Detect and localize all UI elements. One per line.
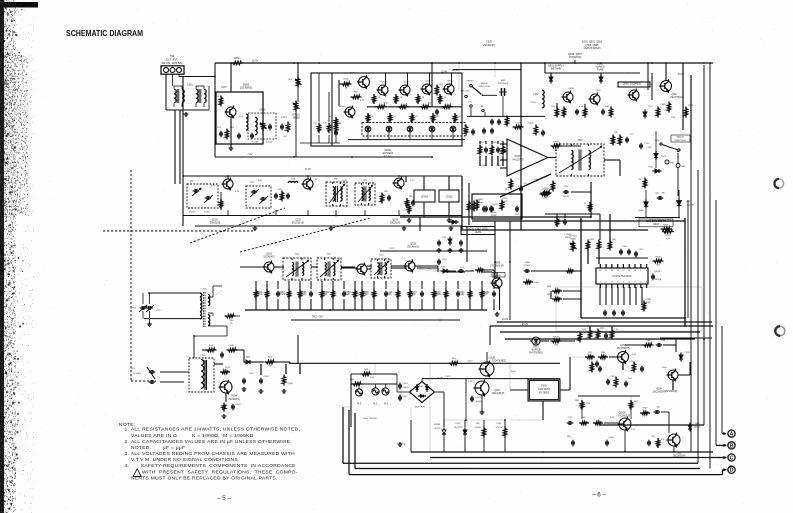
svg-text:2SC2603 (P): 2SC2603 (P) [490, 265, 504, 268]
svg-text:Q506: Q506 [568, 88, 574, 90]
svg-text:CF501: CF501 [421, 197, 429, 199]
svg-text:VC503: VC503 [252, 142, 259, 144]
svg-text:R(3)06: R(3)06 [553, 336, 560, 338]
svg-text:WITH PRESENT SAFETY REGULAT: WITH PRESENT SAFETY REGULATIONS, THESE C… [142, 469, 298, 475]
svg-text:FM: FM [469, 102, 472, 104]
svg-text:D(3): D(3) [246, 357, 250, 359]
svg-text:HA1137(3): HA1137(3) [513, 158, 524, 161]
svg-text:Q101: Q101 [212, 220, 218, 222]
svg-text:13.2V: 13.2V [502, 318, 509, 321]
svg-text:2SC(3)(S): 2SC(3)(S) [390, 223, 401, 225]
svg-text:R(3)9: R(3)9 [287, 383, 293, 385]
svg-text:T01: T01 [170, 54, 175, 58]
svg-text:27/50V: 27/50V [524, 265, 531, 267]
svg-text:7.6K: 7.6K [329, 127, 334, 129]
svg-text:R40: R40 [628, 378, 632, 380]
svg-text:SW5: SW5 [501, 80, 506, 82]
svg-text:0.4V: 0.4V [343, 180, 348, 182]
svg-text:4.7K: 4.7K [666, 238, 671, 240]
svg-text:D502: D502 [661, 156, 666, 158]
svg-text:Q003: Q003 [494, 390, 500, 392]
svg-text:C219: C219 [515, 122, 521, 124]
svg-text:1K: 1K [324, 294, 327, 296]
svg-text:C207: C207 [497, 165, 503, 167]
svg-text:Q308: Q308 [656, 389, 662, 391]
svg-text:PIN SW(3): PIN SW(3) [498, 83, 509, 85]
svg-text:270K: 270K [586, 403, 591, 405]
svg-text:H(3): H(3) [567, 436, 571, 438]
svg-text:100/6V: 100/6V [563, 196, 570, 198]
svg-text:C317: C317 [639, 249, 645, 251]
svg-text:39(B): 39(B) [645, 302, 650, 304]
svg-text:2SD(3)66(P): 2SD(3)66(P) [492, 393, 505, 395]
svg-text:Q201: Q201 [266, 254, 272, 256]
svg-text:C513: C513 [648, 106, 654, 108]
svg-text:2.4V: 2.4V [631, 429, 636, 431]
svg-text:C(3)24: C(3)24 [654, 271, 661, 273]
svg-text:47K: 47K [504, 201, 508, 203]
svg-text:PHONO: PHONO [467, 81, 474, 83]
svg-text:5303: 5303 [676, 452, 682, 454]
svg-text:C102: C102 [295, 220, 301, 222]
svg-text:2C10 C017 D030: 2C10 C017 D030 [468, 229, 488, 231]
svg-text:HF505: HF505 [339, 106, 346, 108]
svg-text:13.2V: 13.2V [252, 59, 259, 63]
svg-text:– 6 –: – 6 – [592, 492, 606, 499]
svg-text:4.2V: 4.2V [610, 417, 615, 419]
svg-text:7.2V: 7.2V [247, 153, 252, 156]
svg-text:2SC945(P): 2SC945(P) [483, 44, 495, 47]
svg-text:2. ALL CAPACITANCES VALUES ARE: 2. ALL CAPACITANCES VALUES ARE IN μF UNL… [125, 439, 291, 445]
svg-text:2SC458(S): 2SC458(S) [240, 86, 253, 90]
svg-text:C509: C509 [530, 102, 536, 104]
svg-text:R(3): R(3) [634, 401, 638, 403]
svg-text:R68: R68 [439, 84, 443, 86]
svg-text:R(3): R(3) [582, 417, 586, 419]
svg-text:0.6V: 0.6V [632, 354, 637, 356]
svg-text:R(3): R(3) [452, 358, 456, 360]
svg-text:R09: R09 [288, 79, 292, 81]
svg-text:DETUNE: DETUNE [551, 68, 561, 71]
svg-text:AUTO SW: AUTO SW [461, 90, 470, 93]
svg-text:C303: C303 [685, 352, 691, 354]
svg-text:Q551: Q551 [224, 177, 230, 179]
svg-text:R6: R6 [339, 123, 341, 125]
svg-text:R95: R95 [384, 191, 388, 193]
svg-text:39(B): 39(B) [570, 239, 576, 241]
svg-text:2.2K: 2.2K [370, 377, 375, 379]
svg-text:C203: C203 [492, 142, 498, 144]
svg-text:SW500: SW500 [480, 83, 488, 85]
svg-text:13.2V: 13.2V [445, 376, 451, 378]
svg-text:470/16V: 470/16V [403, 387, 411, 389]
svg-text:A: A [730, 432, 734, 438]
svg-text:BUF61B: BUF61B [532, 350, 541, 352]
svg-text:C10: C10 [323, 122, 326, 124]
svg-text:2SA678(S)(GR): 2SA678(S)(GR) [584, 47, 601, 50]
svg-text:R529: R529 [553, 141, 559, 143]
svg-text:D: D [730, 468, 734, 474]
svg-text:2.2K: 2.2K [301, 294, 306, 296]
svg-text:V.T.V.M. UNDER NO SIGNAL CONDI: V.T.V.M. UNDER NO SIGNAL CONDITIONS. [131, 457, 240, 463]
svg-text:0.4V: 0.4V [518, 186, 523, 188]
svg-text:C108: C108 [493, 204, 499, 206]
svg-text:2SD476(NE2): 2SD476(NE2) [492, 361, 506, 363]
svg-text:FM STEREO: FM STEREO [529, 353, 543, 355]
svg-text:4.4V: 4.4V [211, 185, 216, 187]
svg-text:D004: D004 [653, 224, 659, 226]
svg-text:R280: R280 [544, 188, 550, 190]
svg-text:Q513: Q513 [447, 81, 453, 83]
svg-text:R(3): R(3) [476, 423, 480, 425]
svg-text:SP001: SP001 [385, 150, 393, 152]
svg-text:T202: T202 [327, 254, 333, 256]
svg-text:Q510: Q510 [671, 94, 677, 96]
svg-text:2SK(3)(S): 2SK(3)(S) [210, 223, 221, 225]
svg-text:FILTERS: FILTERS [539, 392, 549, 395]
svg-text:V/T302: V/T302 [645, 299, 652, 301]
svg-text:1. ALL RESISTANCES ARE 1/4WATT: 1. ALL RESISTANCES ARE 1/4WATTS, UNLESS … [125, 427, 301, 433]
svg-text:C112: C112 [278, 189, 283, 191]
svg-text:L507: L507 [533, 94, 539, 96]
svg-text:TA24V5: TA24V5 [694, 425, 701, 428]
svg-text:SIGNAL: SIGNAL [384, 155, 393, 158]
svg-text:C(3)05: C(3)05 [608, 437, 614, 439]
svg-text:3. ALL VOLTAGES REDING FROM CH: 3. ALL VOLTAGES REDING FROM CHASSIS ARE … [125, 451, 296, 457]
svg-text:10K: 10K [612, 239, 616, 241]
svg-text:2SC2603(P): 2SC2603(P) [665, 391, 678, 393]
svg-text:FUNCTION: FUNCTION [674, 140, 686, 142]
svg-text:DA7(3): DA7(3) [655, 278, 662, 281]
svg-text:R306: R306 [664, 224, 670, 226]
svg-text:1(3): 1(3) [554, 344, 558, 346]
svg-text:RD-6223: RD-6223 [454, 427, 461, 429]
svg-text:R(3)4: R(3)4 [231, 396, 238, 398]
svg-text:VALUES ARE IN Ω. K = 10: VALUES ARE IN Ω. K = 1000Ω, M = 1000KΩ [131, 433, 254, 439]
svg-text:FM50: FM50 [655, 140, 660, 142]
svg-text:C(3)07: C(3)07 [263, 376, 269, 378]
svg-text:(3)0(2)V: (3)0(2)V [475, 427, 483, 429]
svg-text:2SC2603(P): 2SC2603(P) [617, 348, 630, 350]
svg-text:B: B [730, 443, 734, 449]
svg-text:D001: D001 [419, 386, 423, 388]
svg-text:2SC460(S): 2SC460(S) [263, 257, 275, 259]
svg-text:FUNCTION: FUNCTION [478, 86, 490, 88]
svg-text:D(3)7: D(3)7 [456, 423, 461, 425]
svg-text:– 5 –: – 5 – [217, 495, 231, 502]
svg-text:C(3)1: C(3)1 [442, 259, 447, 261]
svg-text:13.4V: 13.4V [441, 71, 448, 74]
svg-text:2SC2603(P): 2SC2603(P) [618, 416, 631, 418]
svg-text:MOD 8.2K: MOD 8.2K [415, 407, 426, 409]
svg-text:Q203: Q203 [410, 244, 416, 246]
svg-text:560-1W: 560-1W [496, 427, 503, 429]
svg-text:C69: C69 [439, 108, 443, 110]
svg-text:10K: 10K [479, 202, 483, 204]
svg-text:C005: C005 [403, 396, 408, 398]
svg-text:R221: R221 [529, 123, 535, 125]
svg-text:TR(3): TR(3) [565, 237, 571, 239]
svg-text:8.2K: 8.2K [459, 294, 464, 296]
svg-text:0.047: 0.047 [363, 294, 369, 296]
svg-text:4.7K: 4.7K [579, 106, 584, 108]
svg-text:CF502: CF502 [446, 197, 454, 199]
svg-text:R(3): R(3) [547, 286, 551, 288]
svg-text:T240: T240 [229, 320, 233, 322]
svg-text:TC01: TC01 [156, 310, 161, 312]
svg-text:D001: D001 [533, 347, 539, 349]
svg-text:TUNE: TUNE [597, 69, 604, 72]
svg-text:Q103: Q103 [392, 220, 398, 222]
svg-text:Q507: Q507 [595, 90, 601, 92]
svg-text:R(3)7: R(3)7 [643, 408, 648, 410]
svg-text:VC01: VC01 [131, 308, 137, 310]
svg-text:R515: R515 [384, 102, 389, 104]
svg-text:D(3)B0: D(3)B0 [434, 424, 440, 426]
svg-text:V(3): V(3) [131, 368, 135, 370]
svg-text:L205: L205 [201, 355, 207, 357]
svg-text:TC503: TC503 [266, 142, 273, 144]
svg-text:SCHEMATIC DIAGRAM: SCHEMATIC DIAGRAM [66, 28, 143, 38]
svg-text:C(3): C(3) [655, 193, 659, 195]
svg-text:C(3)12: C(3)12 [235, 404, 241, 406]
svg-text:2SC945(S): 2SC945(S) [228, 399, 240, 401]
svg-text:14.3V: 14.3V [510, 371, 516, 373]
svg-text:C515: C515 [645, 143, 651, 145]
svg-text:D001 S1VS20: D001 S1VS20 [363, 418, 377, 420]
svg-text:C(3): C(3) [568, 417, 572, 419]
svg-text:47/16V: 47/16V [278, 294, 286, 296]
svg-text:C(3): C(3) [651, 436, 655, 438]
svg-text:C39: C39 [610, 376, 614, 378]
svg-text:ELPRESS: ELPRESS [383, 153, 394, 155]
svg-text:2SA778(GR): 2SA778(GR) [670, 96, 684, 99]
svg-text:R205: R205 [482, 165, 488, 167]
svg-text:4.7K: 4.7K [360, 100, 365, 102]
svg-text:Q511: Q511 [425, 81, 431, 83]
svg-text:1.2K: 1.2K [671, 117, 676, 119]
svg-text:NENTS MUST ONLY BE REPLACED BY: NENTS MUST ONLY BE REPLACED BY ORIGINAL … [131, 475, 278, 481]
svg-text:13.2V: 13.2V [389, 248, 395, 250]
svg-text:C(3)03: C(3)03 [475, 397, 481, 399]
svg-text:C(3): C(3) [656, 407, 660, 409]
svg-text:C304: C304 [662, 367, 668, 369]
svg-text:FM: FM [670, 163, 673, 165]
svg-text:D001: D001 [649, 167, 654, 169]
svg-text:Q(3)08: Q(3)08 [618, 413, 626, 415]
svg-text:L/T503: L/T503 [565, 234, 572, 236]
svg-text:R201: R201 [480, 142, 486, 144]
svg-text:C(3)4: C(3)4 [524, 262, 530, 264]
svg-text:TC501: TC501 [204, 211, 211, 213]
svg-text:Q505: Q505 [349, 73, 355, 75]
svg-text:780: 780 [661, 193, 664, 195]
svg-text:1.2(P): 1.2(P) [646, 147, 652, 149]
svg-text:!: ! [137, 472, 138, 476]
svg-text:1.4V: 1.4V [629, 361, 634, 363]
svg-text:C315: C315 [623, 246, 629, 248]
svg-text:1.3V: 1.3V [534, 179, 539, 181]
svg-text:C(3)01: C(3)01 [489, 358, 497, 360]
svg-text:R(3)1: R(3)1 [497, 423, 502, 425]
svg-text:33K: 33K [388, 294, 393, 296]
svg-text:T204: T204 [577, 140, 583, 142]
svg-text:L203: L203 [202, 289, 208, 291]
svg-text:1000P: 1000P [435, 294, 442, 296]
svg-text:VC(3)01: VC(3)01 [133, 373, 142, 375]
svg-text:2SC535-(S): 2SC535-(S) [292, 223, 305, 225]
svg-text:C120: C120 [515, 214, 521, 216]
svg-text:R551: R551 [234, 58, 240, 60]
svg-text:Q509: Q509 [403, 82, 409, 84]
svg-text:VC501: VC501 [189, 211, 196, 213]
svg-text:0.02(3): 0.02(3) [476, 401, 482, 403]
svg-text:R240: R240 [666, 235, 671, 237]
svg-text:T201: T201 [295, 254, 301, 256]
svg-text:L501: L501 [187, 83, 193, 86]
svg-text:C6V(2)0: C6V(2)0 [434, 428, 441, 430]
svg-text:13.2V: 13.2V [522, 323, 529, 326]
svg-text:C06: C06 [313, 122, 316, 124]
svg-text:2SC460(S): 2SC460(S) [407, 247, 419, 249]
svg-text:Q508 2SC945(S): Q508 2SC945(S) [623, 84, 642, 86]
svg-text:2SC945(S): 2SC945(S) [569, 55, 582, 59]
svg-text:R117: R117 [479, 199, 485, 201]
svg-text:C105: C105 [492, 212, 498, 214]
svg-text:10K: 10K [605, 106, 609, 108]
svg-text:2(3)06: 2(3)06 [638, 210, 643, 212]
svg-text:R(3): R(3) [575, 400, 579, 402]
svg-text:C137: C137 [221, 87, 227, 89]
svg-text:AM FM SW3 BAL: AM FM SW3 BAL [161, 61, 183, 65]
svg-text:L503: L503 [259, 109, 265, 112]
svg-text:Q507: Q507 [381, 82, 387, 84]
svg-text:AM: AM [481, 105, 484, 108]
svg-text:1.4V: 1.4V [468, 381, 473, 383]
svg-text:IC301 BA1320: IC301 BA1320 [613, 274, 632, 278]
svg-text:NOTED. μF = μμF: NOTED. μF = μμF [131, 445, 185, 451]
svg-text:R97: R97 [409, 196, 413, 198]
svg-text:3.3(R): 3.3(R) [660, 104, 666, 106]
svg-text:3.4V: 3.4V [235, 191, 240, 193]
svg-text:C182: C182 [564, 186, 570, 188]
svg-text:0.01: 0.01 [258, 294, 263, 296]
svg-text:EXT. ANT: EXT. ANT [166, 58, 178, 62]
svg-text:2SC2603(P): 2SC2603(P) [653, 392, 666, 394]
svg-text:L174: L174 [281, 117, 287, 119]
svg-text:SW503: SW503 [676, 137, 684, 139]
svg-text:IC201: IC201 [515, 154, 522, 158]
svg-text:11.2V: 11.2V [305, 169, 311, 171]
svg-text:C003: C003 [403, 383, 408, 385]
svg-text:1A28A: 1A28A [475, 231, 482, 234]
svg-text:14.2V: 14.2V [467, 360, 473, 362]
svg-text:R(3)2: R(3)2 [226, 367, 231, 369]
svg-text:270: 270 [229, 323, 232, 325]
svg-text:R308: R308 [655, 256, 661, 258]
svg-text:C: C [730, 455, 734, 461]
svg-text:8.4V: 8.4V [258, 180, 263, 182]
svg-text:R505: R505 [344, 79, 350, 81]
svg-text:TP(2) GM: TP(2) GM [312, 316, 323, 318]
svg-text:T203: T203 [379, 255, 385, 257]
svg-text:AM: AM [681, 165, 684, 168]
svg-text:R(3): R(3) [268, 357, 272, 359]
svg-text:4. SAFETY-REQUIREMENTS: 4. SAFETY-REQUIREMENTS COMPONENTS IN ACC… [125, 463, 297, 469]
svg-text:2.1V: 2.1V [410, 180, 415, 182]
